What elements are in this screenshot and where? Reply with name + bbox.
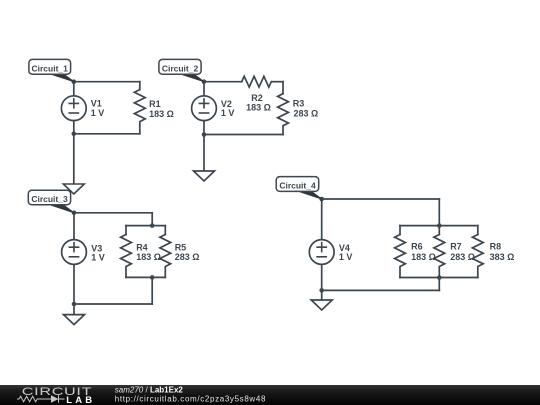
- node C3 bottom: [72, 302, 77, 307]
- resistor R3: [278, 82, 289, 135]
- wire C2 top right: [271, 81, 283, 83]
- svg-text:183 Ω: 183 Ω: [136, 252, 161, 262]
- svg-text:283 Ω: 283 Ω: [450, 252, 475, 262]
- resistor R7: [434, 226, 445, 278]
- wire C4 ground lead: [321, 290, 323, 300]
- svg-text:LAB: LAB: [66, 395, 95, 405]
- svg-text:sam270 / Lab1Ex2: sam270 / Lab1Ex2: [115, 385, 184, 394]
- wire C3 ground lead: [73, 304, 75, 315]
- node C3 top: [72, 211, 77, 216]
- svg-text:283 Ω: 283 Ω: [175, 252, 200, 262]
- svg-text:283 Ω: 283 Ω: [294, 108, 319, 118]
- node C2 top: [202, 79, 207, 84]
- node flag Circuit_3: [28, 190, 74, 213]
- svg-text:383 Ω: 383 Ω: [490, 252, 515, 262]
- svg-text:1 V: 1 V: [91, 108, 105, 118]
- wire C3 bottom drop: [151, 277, 153, 304]
- svg-text:http://circuitlab.com/c2pza3y5: http://circuitlab.com/c2pza3y5s8w48: [115, 394, 266, 403]
- node flag Circuit_2: [159, 59, 204, 81]
- voltage source V2: [192, 96, 217, 121]
- node C3 bracket bottom: [150, 275, 155, 280]
- wire C4 bracket top: [400, 225, 478, 227]
- ground C1: [63, 184, 84, 194]
- node C4 top: [319, 197, 324, 202]
- resistor R1: [134, 82, 145, 134]
- resistor R6: [395, 226, 406, 278]
- logo resistor-diode glyph: [17, 395, 65, 402]
- ground C2: [194, 171, 215, 181]
- node C1 top: [72, 79, 77, 84]
- wire C3 bracket bottom: [126, 276, 165, 278]
- wire C3 bottom: [74, 303, 152, 305]
- svg-text:R2: R2: [251, 93, 263, 103]
- wire C3 top drop: [151, 213, 153, 226]
- resistor R2: [242, 76, 272, 87]
- resistor R5: [160, 226, 171, 278]
- svg-text:1 V: 1 V: [221, 108, 235, 118]
- wire C2 V2 bottom lead: [203, 121, 205, 135]
- node C4 bottom: [319, 288, 324, 293]
- node C2 bottom: [202, 132, 207, 137]
- svg-text:R1: R1: [149, 99, 161, 109]
- svg-text:R6: R6: [411, 242, 423, 252]
- logo diode triangle: [51, 395, 59, 402]
- svg-text:Circuit_2: Circuit_2: [162, 64, 199, 74]
- wire C1 top: [74, 81, 140, 83]
- wire C4 V4 bottom lead: [321, 264, 323, 290]
- wire C4 V4 top lead: [321, 199, 323, 240]
- svg-text:R8: R8: [490, 242, 502, 252]
- svg-text:183 Ω: 183 Ω: [149, 109, 174, 119]
- wire C1 ground lead: [73, 134, 75, 184]
- svg-text:183 Ω: 183 Ω: [246, 103, 271, 113]
- wire C4 top drop: [438, 199, 440, 226]
- resistor R8: [472, 226, 483, 278]
- wire C4 bottom drop: [438, 278, 440, 291]
- wire C2 bottom: [204, 134, 283, 136]
- svg-text:1 V: 1 V: [339, 252, 353, 262]
- wire C4 bottom: [322, 289, 440, 291]
- wire C1 V1 top lead: [73, 82, 75, 96]
- wire C2 top left: [204, 81, 242, 83]
- ground C3: [64, 315, 85, 325]
- wire C1 bottom: [74, 133, 140, 135]
- voltage source V3: [62, 240, 87, 265]
- wire C3 V3 top lead: [73, 213, 75, 240]
- svg-text:R3: R3: [293, 98, 305, 108]
- node C1 bottom: [72, 132, 77, 137]
- node flag Circuit_4: [276, 177, 322, 199]
- wire C3 top: [74, 212, 152, 214]
- svg-text:Circuit_1: Circuit_1: [32, 64, 69, 74]
- ground C4: [311, 300, 332, 310]
- wire C3 V3 bottom lead: [73, 264, 75, 304]
- node C4 bracket top: [437, 223, 442, 228]
- voltage source V1: [61, 96, 86, 121]
- wire C2 V2 top lead: [203, 82, 205, 96]
- svg-text:R7: R7: [450, 242, 462, 252]
- svg-text:Circuit_3: Circuit_3: [31, 194, 68, 204]
- node C4 bracket bottom: [437, 275, 442, 280]
- wire C4 bracket bottom: [400, 277, 478, 279]
- wire C2 ground lead: [203, 135, 205, 172]
- node C3 bracket top: [150, 223, 155, 228]
- wire C4 top: [322, 198, 440, 200]
- node flag Circuit_1: [29, 59, 74, 81]
- footer bar: [0, 385, 540, 405]
- svg-text:1 V: 1 V: [91, 253, 105, 263]
- svg-text:183 Ω: 183 Ω: [411, 252, 436, 262]
- wire C1 V1 bottom lead: [73, 121, 75, 134]
- voltage source V4: [309, 240, 334, 265]
- svg-text:Circuit_4: Circuit_4: [279, 181, 316, 191]
- wire C3 bracket top: [126, 225, 165, 227]
- resistor R4: [121, 226, 132, 278]
